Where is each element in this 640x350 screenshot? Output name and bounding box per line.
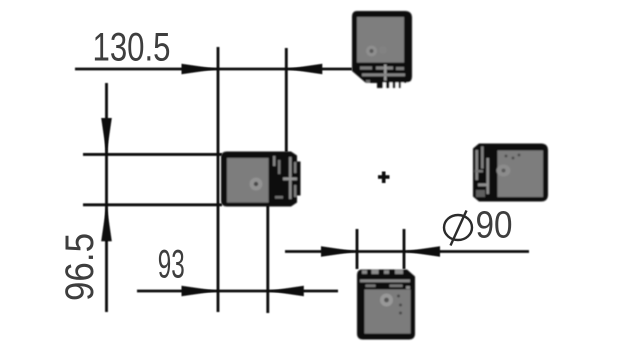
arrow right at 217,69 xyxy=(182,64,219,75)
device right (camera module, connector at left) xyxy=(473,144,548,202)
arrow left at 267,291 xyxy=(268,286,304,297)
arrow right at 217,291 xyxy=(182,286,219,297)
extension line x286 xyxy=(285,48,288,152)
device top (camera module, connector at bottom) xyxy=(352,11,412,88)
extension line y204 xyxy=(83,203,222,206)
device bottom (camera module, connector at top) xyxy=(357,270,415,340)
svg-text:93: 93 xyxy=(158,243,185,287)
svg-text:130.5: 130.5 xyxy=(93,26,171,70)
svg-text:90: 90 xyxy=(476,205,513,247)
dim line d90 xyxy=(285,250,529,253)
arrow up at 106,204 xyxy=(101,205,112,242)
arrow right at 357,251 xyxy=(321,246,357,257)
extension line y152 xyxy=(83,153,222,156)
diameter symbol xyxy=(444,211,472,246)
extension line x217 xyxy=(217,47,220,312)
extension line x357 xyxy=(356,229,359,269)
dim line 93 xyxy=(137,290,338,293)
extension line x267 xyxy=(266,205,269,313)
arrow left at 404,251 xyxy=(404,246,440,257)
dim line 130.5 xyxy=(75,68,352,71)
arrow down at 106,152 xyxy=(101,118,112,154)
dim line 96.5 xyxy=(105,83,108,312)
device left (camera module, connector at right) xyxy=(221,152,301,207)
svg-text:96.5: 96.5 xyxy=(58,233,102,301)
extension line x404 xyxy=(403,229,406,269)
arrow left at 286,69 xyxy=(286,64,322,75)
center cross xyxy=(378,172,390,184)
